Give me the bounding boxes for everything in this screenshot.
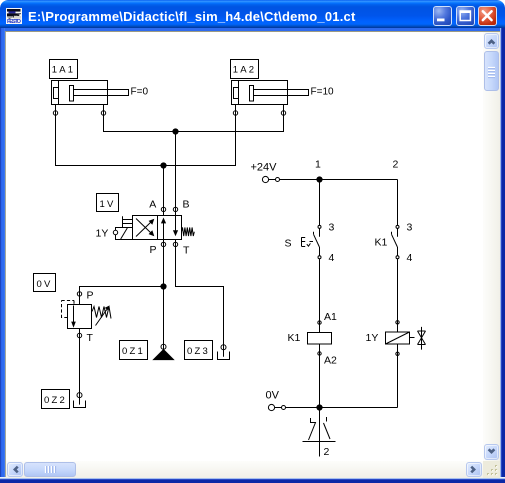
pilot dashed line of 0V xyxy=(62,301,75,319)
svg-text:T: T xyxy=(87,332,94,344)
label 4 of K1 xyxy=(407,252,413,264)
svg-text:P: P xyxy=(87,290,94,302)
label 0V xyxy=(266,390,280,402)
label 1 xyxy=(315,159,321,171)
svg-text:0Z1: 0Z1 xyxy=(122,346,145,357)
svg-text:1Y: 1Y xyxy=(96,228,109,240)
node junction on B line xyxy=(172,128,178,134)
wire valve P down to node xyxy=(163,240,165,287)
svg-text:0V: 0V xyxy=(266,390,280,402)
vertical scrollbar parts xyxy=(484,33,499,49)
label K1 contact xyxy=(375,237,388,249)
terminal top of solenoid 1Y xyxy=(396,321,399,324)
wire 1A1-right to 1A2-right xyxy=(104,115,284,131)
relay coil K1 xyxy=(308,333,332,345)
wire 1A1-left to 1A2-left xyxy=(56,115,236,165)
node 0V junction xyxy=(316,404,322,410)
potential link symbol xyxy=(303,408,336,457)
valve 1V body xyxy=(133,216,182,240)
svg-text:4: 4 xyxy=(329,252,335,264)
node P junction xyxy=(160,283,166,289)
port label B xyxy=(183,199,190,211)
valve link symbol of 1Y xyxy=(410,327,426,350)
terminal 0V xyxy=(268,404,285,410)
window buttons xyxy=(433,6,452,26)
label F=0 xyxy=(131,87,149,98)
switch S contact xyxy=(314,225,322,258)
svg-text:+24V: +24V xyxy=(251,162,278,174)
label A1 xyxy=(324,311,337,323)
spring of 0V xyxy=(92,305,111,325)
label box 0Z3 xyxy=(185,341,213,360)
svg-text:F=0: F=0 xyxy=(131,87,149,98)
node 1 junction xyxy=(316,176,322,182)
svg-text:2: 2 xyxy=(393,159,399,171)
wire contact K1 to solenoid 1Y xyxy=(397,259,399,332)
wire node to valve port B xyxy=(175,132,177,216)
svg-text:K1: K1 xyxy=(375,237,388,249)
wire 0V rail xyxy=(286,407,398,409)
svg-text:0Z2: 0Z2 xyxy=(44,395,67,406)
corner grip xyxy=(483,461,500,478)
label box 1V xyxy=(97,194,119,212)
contact K1 xyxy=(392,225,400,258)
wire valve T to 0Z3 xyxy=(176,240,224,357)
svg-text:F=10: F=10 xyxy=(311,87,335,98)
svg-text:1A2: 1A2 xyxy=(233,65,257,76)
label 3 of K1 xyxy=(407,222,413,234)
label box 0Z1 xyxy=(120,341,148,360)
wire 0V T down to 0Z2 xyxy=(79,338,81,405)
svg-text:A: A xyxy=(149,199,156,211)
port label P of 0V xyxy=(87,290,94,302)
label K1 coil xyxy=(288,332,301,344)
manual override of valve 1V xyxy=(123,216,133,227)
wire node 2 to contact K1 xyxy=(397,180,399,226)
return spring of valve 1V xyxy=(182,227,195,236)
title text xyxy=(28,9,355,24)
svg-text:T: T xyxy=(183,245,190,257)
port label A xyxy=(149,199,156,211)
port label T xyxy=(183,245,190,257)
svg-text:1V: 1V xyxy=(99,199,115,210)
horizontal scrollbar parts xyxy=(7,462,23,477)
wire switch S to coil K1 xyxy=(319,259,321,333)
exhaust 0Z3 xyxy=(218,345,230,360)
svg-text:0V: 0V xyxy=(36,279,52,290)
label 1Y coil xyxy=(366,332,379,344)
label box 0V xyxy=(34,274,56,292)
switch S manual actuator xyxy=(302,237,314,246)
svg-text:2: 2 xyxy=(324,446,330,458)
cylinder 1A1 xyxy=(52,81,129,117)
label box 1A2 xyxy=(231,60,259,79)
title icon xyxy=(6,8,22,24)
wire node 1 to switch S xyxy=(319,180,321,226)
wire +24V rail xyxy=(280,179,398,181)
air supply 0Z1 xyxy=(154,344,174,359)
valve 1V straight arrows xyxy=(161,216,178,240)
label 4 of S xyxy=(329,252,335,264)
svg-text:K1: K1 xyxy=(288,332,301,344)
svg-text:B: B xyxy=(183,199,190,211)
valve 1V port circles xyxy=(161,207,177,246)
solenoid coil 1Y xyxy=(386,332,410,344)
label S xyxy=(285,238,292,250)
valve 1V crossed arrows xyxy=(136,219,154,237)
label box 0Z2 xyxy=(42,390,70,409)
terminal +24V xyxy=(262,176,279,182)
exhaust 0Z2 xyxy=(74,393,86,408)
svg-text:1Y: 1Y xyxy=(366,332,379,344)
label 1Y at valve xyxy=(96,228,109,240)
svg-text:1A1: 1A1 xyxy=(52,65,76,76)
wire node to relief valve 0V xyxy=(80,287,164,305)
label box 1A1 xyxy=(50,60,78,79)
svg-text:4: 4 xyxy=(407,252,413,264)
wire coil K1 to 0V rail xyxy=(319,344,321,408)
terminal A2 xyxy=(318,352,321,355)
svg-text:1: 1 xyxy=(315,159,321,171)
svg-text:A1: A1 xyxy=(324,311,337,323)
label 2 xyxy=(393,159,399,171)
wire node down to 0Z1 xyxy=(163,287,165,351)
terminal A1 xyxy=(318,321,321,324)
svg-text:A2: A2 xyxy=(324,355,337,367)
label F=10 xyxy=(311,87,335,98)
wire node to valve port A xyxy=(163,166,165,216)
label A2 xyxy=(324,355,337,367)
svg-text:0Z3: 0Z3 xyxy=(187,346,210,357)
svg-text:S: S xyxy=(285,238,292,250)
relief valve 0V xyxy=(68,292,92,338)
solenoid of valve 1V xyxy=(113,228,132,240)
svg-text:3: 3 xyxy=(407,222,413,234)
label 3 of S xyxy=(329,222,335,234)
port label T of 0V xyxy=(87,332,94,344)
terminal bottom of solenoid 1Y xyxy=(396,352,399,355)
node junction on A line xyxy=(160,162,166,168)
cylinder 1A2 xyxy=(232,81,309,117)
svg-text:P: P xyxy=(150,244,157,256)
port label P xyxy=(150,244,157,256)
svg-text:3: 3 xyxy=(329,222,335,234)
label 2 of link xyxy=(324,446,330,458)
label +24V xyxy=(251,162,278,174)
wire solenoid 1Y to 0V rail xyxy=(397,344,399,408)
